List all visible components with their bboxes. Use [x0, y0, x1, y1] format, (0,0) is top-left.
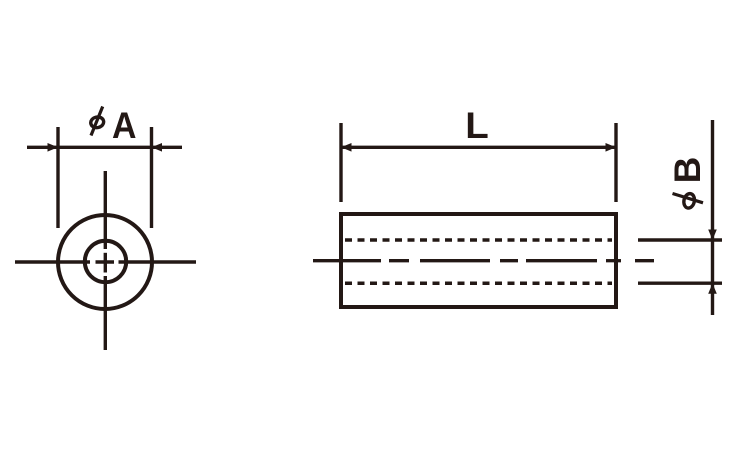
svg-text:B: B — [667, 157, 708, 184]
svg-text:A: A — [112, 105, 137, 146]
svg-text:L: L — [465, 105, 489, 146]
